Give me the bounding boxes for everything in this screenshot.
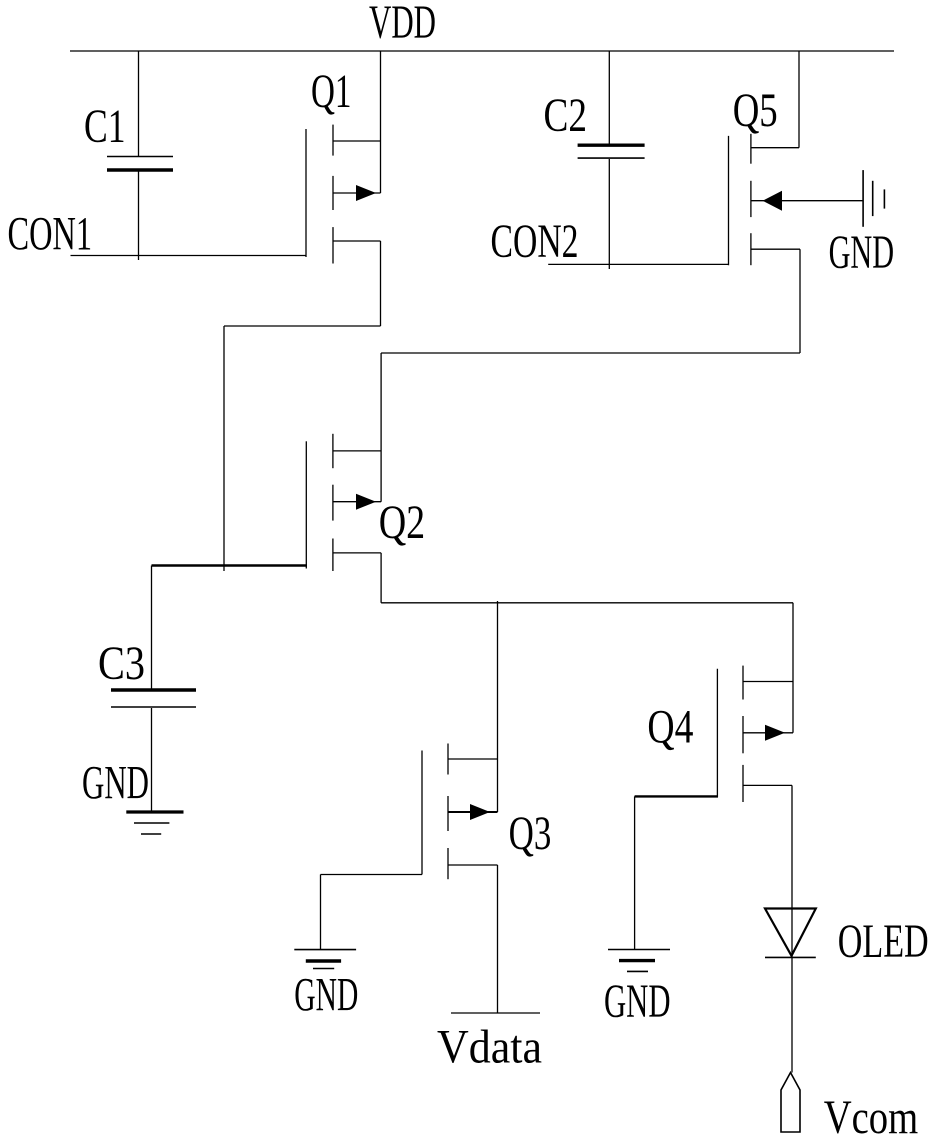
wire Q3 source down to Vdata [497,865,499,1013]
svg-text:CON2: CON2 [491,215,579,268]
svg-text:Q3: Q3 [509,807,552,860]
wire VDD rail [70,50,894,52]
svg-text:VDD: VDD [369,0,436,49]
svg-text:CON1: CON1 [8,208,93,261]
svg-text:GND: GND [294,969,358,1022]
wire node C down to Q4 drain [792,603,794,733]
wire Q2 drain up [380,353,382,502]
transistor Q5 [729,134,864,265]
ground under Q4 [608,950,670,972]
terminal Vdata [451,1012,540,1014]
transistor Q1 [306,125,381,264]
wire CON2 net [548,263,729,265]
wire node C horizontal (Q2 source to Q4 drain) [381,602,793,604]
wire Q1 source jog to node A [224,326,381,571]
transistor Q4 [717,666,793,802]
wire Q1 drain to VDD [380,51,382,193]
svg-text:OLED: OLED [838,915,929,968]
svg-text:C1: C1 [84,100,126,153]
svg-text:Q1: Q1 [311,65,352,118]
diode OLED [765,909,816,958]
ground under Q3 [294,950,356,969]
svg-text:Q2: Q2 [379,496,426,549]
svg-text:C3: C3 [98,637,145,690]
wire CON1 net [71,255,307,257]
svg-text:C2: C2 [544,89,588,142]
ground bars (Q5 bulk) [863,170,884,227]
ground under C3 [126,812,183,834]
transistor Q2 [306,434,381,571]
wire Q2 source down [380,553,382,603]
terminal Vcom pin [781,1073,800,1133]
wire Q5 drain to VDD [798,51,800,148]
svg-text:Vdata: Vdata [437,1021,542,1074]
wire node A horizontal (C3 / Q2 gate) [152,564,308,566]
wire node C down to Q3 drain [497,601,499,812]
wire Q4 gate left [635,796,718,949]
svg-text:Vcom: Vcom [824,1091,919,1143]
wire Q4 source down to OLED [791,785,793,1072]
capacitor C3 [111,690,196,812]
capacitor C1 [107,51,173,260]
wire node B horizontal (Q2 drain to Q5 source) [381,352,800,354]
svg-text:GND: GND [829,226,895,279]
wire Q3 gate left [321,875,423,950]
svg-text:Q4: Q4 [647,701,693,754]
svg-text:GND: GND [82,757,149,810]
svg-text:Q5: Q5 [733,84,778,137]
capacitor C2 [578,51,645,269]
wire node A down to C3 [151,566,153,691]
wire Q5 source down to node B [799,249,801,353]
transistor Q3 [422,744,498,880]
wire Q1 source down [380,241,382,326]
svg-text:GND: GND [604,975,671,1028]
